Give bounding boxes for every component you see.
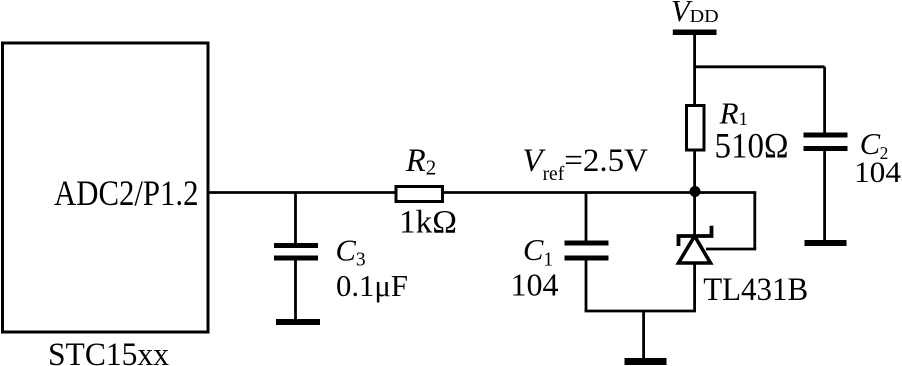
wire: C2 branch stem upper [823, 67, 826, 134]
wire: bottom return wire from C1 to TL431 anode [585, 310, 696, 313]
capacitor C3 top plate [274, 243, 318, 248]
ground bar under TL431 [625, 358, 667, 365]
power rail bar VDD [673, 30, 717, 36]
ground bar under C3 [276, 319, 320, 325]
ground bar under C2 [805, 240, 847, 246]
svg-text:STC15xx: STC15xx [48, 337, 169, 366]
svg-text:1kΩ: 1kΩ [399, 205, 457, 241]
wire: main horizontal node wire from MCU pin to TL431 feedback corner [208, 191, 756, 194]
svg-text:0.1μF: 0.1μF [336, 268, 408, 303]
wire: TL431 feedback horizontal segment to ref [706, 248, 756, 251]
wire: TL431 feedback vertical segment [753, 192, 756, 250]
capacitor C1 top plate [565, 241, 609, 246]
svg-text:R2: R2 [405, 143, 436, 179]
TL431 D1 cathode bar with zener ticks [679, 226, 712, 246]
resistor R2 [396, 187, 443, 202]
wire: top branch to C2 [695, 65, 825, 68]
wire: C3 branch stem upper [294, 193, 297, 245]
svg-text:Vref=2.5V: Vref=2.5V [522, 143, 648, 185]
IC U1 box STC15xx [3, 43, 209, 332]
resistor R1 [687, 106, 705, 151]
TL431 D1 anode triangle [679, 236, 711, 263]
svg-text:104: 104 [511, 266, 559, 302]
svg-text:510Ω: 510Ω [715, 126, 789, 166]
svg-text:C3: C3 [336, 234, 366, 271]
wire: C1 branch stem upper [585, 193, 588, 243]
wire: TL431 cathode stem [693, 192, 696, 236]
wire: ground stem [642, 311, 645, 359]
capacitor C2 bottom plate [804, 146, 848, 151]
svg-text:VDD: VDD [671, 0, 719, 28]
capacitor C3 bottom plate [274, 256, 318, 261]
svg-text:C1: C1 [523, 233, 553, 271]
wire: C1 branch stem lower [585, 260, 588, 311]
capacitor C1 bottom plate [565, 256, 609, 261]
capacitor C2 top plate [804, 133, 848, 138]
junction dot node Vref [690, 186, 701, 197]
svg-text:TL431B: TL431B [703, 272, 808, 308]
svg-text:104: 104 [854, 156, 901, 189]
svg-text:ADC2/P1.2: ADC2/P1.2 [54, 173, 199, 213]
wire: C3 branch stem lower [294, 260, 297, 320]
wire: VDD stem down to junction [693, 35, 696, 192]
wire: C2 branch stem lower [823, 151, 826, 241]
wire: TL431 anode stem [693, 263, 696, 311]
